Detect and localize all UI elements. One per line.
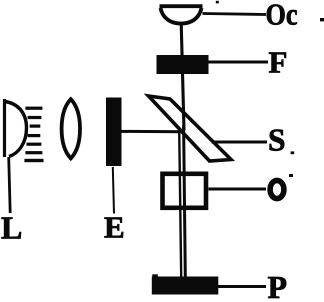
svg-text:S: S [268, 121, 286, 157]
lamp L bulb arc [5, 102, 27, 157]
axis wire right ray splitter to plate P [184, 125, 186, 277]
wire E to splitter [122, 130, 185, 133]
wire splitter to S label [212, 141, 268, 144]
label O ring [270, 180, 284, 198]
axis wire eyepiece to splitter [181, 23, 184, 130]
lamp L flat back [3, 99, 6, 157]
diaphragm E stem wire [113, 167, 114, 214]
speck right of Oc [320, 18, 324, 21]
photographic plate P block [152, 277, 219, 295]
condenser lens [62, 99, 80, 158]
filter F block [157, 55, 209, 74]
speck above O [289, 174, 293, 177]
wire O box to O label [209, 188, 267, 191]
speck below S [291, 151, 295, 154]
speck top [216, 1, 219, 4]
wire eyepiece to Oc label [203, 14, 267, 15]
svg-text:F: F [269, 45, 288, 80]
svg-text:E: E [104, 209, 125, 244]
axis wire left ray splitter to plate P [179, 129, 181, 277]
eyepiece Oc bowl [161, 8, 202, 24]
eyepiece Oc flat top [160, 4, 203, 8]
diaphragm E bar [106, 98, 122, 167]
wire F block to F label [209, 61, 269, 64]
svg-text:L: L [1, 210, 22, 246]
plate P corner bump [152, 274, 158, 277]
wire plate to P label [218, 285, 266, 288]
beam splitter S plate [149, 96, 232, 161]
objective O box [163, 174, 207, 208]
svg-text:Oc: Oc [266, 0, 298, 32]
svg-text:P: P [268, 269, 288, 302]
lamp L stem wire [9, 157, 11, 213]
lamp L ray dashes [24, 107, 43, 163]
